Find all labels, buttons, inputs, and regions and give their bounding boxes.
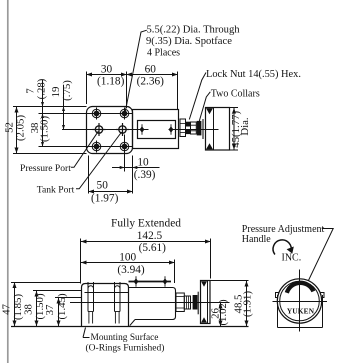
- svg-text:Fully Extended: Fully Extended: [111, 218, 181, 230]
- svg-text:(1.97): (1.97): [91, 193, 119, 205]
- svg-text:(1.91): (1.91): [242, 291, 254, 317]
- svg-text:(.75): (.75): [61, 80, 73, 101]
- svg-text:100: 100: [119, 252, 136, 264]
- svg-text:9(.35) Dia. Spotface: 9(.35) Dia. Spotface: [146, 36, 232, 47]
- svg-text:(1.45): (1.45): [56, 293, 68, 319]
- svg-text:(2.36): (2.36): [137, 76, 165, 88]
- svg-text:Two Collars: Two Collars: [211, 89, 260, 100]
- svg-text:(3.94): (3.94): [117, 264, 145, 276]
- svg-text:Mounting Surface: Mounting Surface: [91, 332, 159, 343]
- svg-text:Handle: Handle: [242, 234, 271, 245]
- svg-text:Dia.: Dia.: [239, 117, 251, 135]
- svg-text:30: 30: [101, 64, 113, 76]
- svg-text:(1.18): (1.18): [97, 76, 125, 88]
- svg-text:(1.50): (1.50): [39, 116, 51, 142]
- svg-text:(O-Rings Furnished): (O-Rings Furnished): [86, 343, 165, 354]
- svg-text:142.5: 142.5: [137, 230, 163, 242]
- svg-text:YUKEN: YUKEN: [287, 307, 315, 316]
- svg-text:(.28): (.28): [36, 78, 48, 99]
- svg-text:Pressure Port: Pressure Port: [20, 163, 71, 174]
- svg-text:38: 38: [23, 304, 35, 315]
- svg-text:(1.02): (1.02): [217, 299, 229, 325]
- svg-text:(2.05): (2.05): [15, 115, 27, 141]
- svg-text:Tank Port: Tank Port: [37, 185, 75, 196]
- svg-text:4 Places: 4 Places: [147, 48, 180, 59]
- svg-text:60: 60: [145, 64, 157, 76]
- svg-text:37: 37: [44, 304, 56, 315]
- svg-text:INC.: INC.: [282, 253, 302, 264]
- svg-text:5.5(.22) Dia. Through: 5.5(.22) Dia. Through: [147, 25, 241, 36]
- svg-text:(.39): (.39): [134, 169, 156, 181]
- svg-text:47: 47: [1, 304, 13, 315]
- svg-text:Lock Nut 14(.55) Hex.: Lock Nut 14(.55) Hex.: [206, 69, 301, 80]
- svg-text:(5.61): (5.61): [139, 242, 167, 254]
- svg-text:50: 50: [97, 180, 109, 192]
- svg-text:10: 10: [137, 157, 149, 169]
